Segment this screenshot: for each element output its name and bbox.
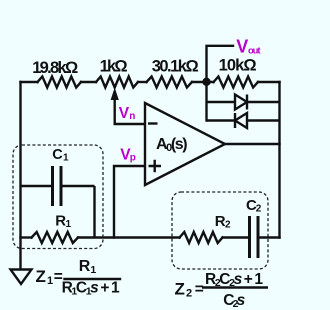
capacitor C1 plates [53,166,62,206]
node label Vp [120,146,136,163]
svg-text:2: 2 [256,204,262,215]
wire between 30.1k resistor and node Vout [192,81,214,83]
svg-text:10kΩ: 10kΩ [219,57,257,75]
wire potentiometer wiper shaft [113,100,115,124]
svg-text:1: 1 [66,219,72,230]
svg-text:n: n [129,111,135,122]
svg-text:19.8kΩ: 19.8kΩ [32,59,78,77]
svg-text:C2s: C2s [223,292,245,310]
impedance block Z2 dashed box [172,192,268,269]
op-amp non-inverting input plus sign [149,160,162,173]
reference label R1 [55,213,71,231]
resistor 19.8kOhm [38,77,82,88]
diode D2 (bottom, anode right) [207,113,280,128]
wire right rail vertical (op-amp output net) [278,82,280,238]
resistor R2 [180,232,223,243]
svg-text:1: 1 [47,275,53,287]
wire R2 right end to C2 left plate [223,236,250,238]
svg-text:R2C2s + 1: R2C2s + 1 [205,271,263,289]
wire bottom rail: left rail to R1 [21,236,32,238]
ground symbol [11,270,32,285]
wire bottom rail: R1 right end to R2 left end (node Vp net) [78,236,180,238]
impedance block Z1 dashed box [13,145,103,249]
node label Vn [119,105,136,122]
svg-text:C: C [52,147,63,163]
wire between 1k potentiometer and 30.1k resistor [138,81,147,83]
svg-text:R1C1s + 1: R1C1s + 1 [62,280,120,298]
wire node Vn: wiper to op-amp inverting input [115,123,145,125]
capacitor C2 plates [250,216,259,258]
svg-text:=: = [195,281,204,298]
potentiometer 1kOhm body [96,77,138,88]
node Vout junction dot [202,78,210,86]
reference label C2 [246,197,262,215]
resistor R1 [32,232,79,243]
svg-text:2: 2 [225,220,231,231]
op-amp A0(s) triangle body [145,103,225,185]
wire between 19.8k resistor and 1k potentiometer [81,81,96,83]
svg-text:p: p [130,153,136,164]
wire C2 right plate to right rail [259,236,280,238]
wire left rail vertical (ground net) [19,82,21,269]
svg-text:1kΩ: 1kΩ [100,58,128,76]
reference label C1 [52,147,69,164]
resistor 30.1kOhm [147,77,193,88]
svg-text:Z: Z [175,280,185,299]
wire op-amp output to right rail [225,143,280,145]
wire 10k resistor right end to right rail corner [258,81,280,83]
wire node Vp: op-amp non-inverting input down to bottom rail [114,166,145,238]
wire left rail to C1 left plate [21,185,52,187]
op-amp inverting input minus sign [148,122,158,124]
potentiometer wiper arrowhead [111,88,119,101]
svg-text:1: 1 [63,153,69,164]
equation Z1 = R1/(R1C1s+1) [36,258,122,298]
diode D1 (top, anode left) [207,95,280,110]
node label Vout [236,37,261,57]
wire Vout stub from junction up and right to label [207,46,234,82]
svg-text:A0(s): A0(s) [156,136,188,154]
svg-text:V: V [119,105,130,122]
svg-text:out: out [248,46,261,57]
svg-text:2: 2 [186,288,192,300]
equation Z2 = (R2C2s+1)/(C2s) [175,271,269,310]
wire top rail: left corner to 19.8k resistor [21,81,38,83]
resistor 10kOhm [214,77,259,88]
wire diode branch left vertical from node Vout [205,82,207,121]
wire C1 right plate across and down to bottom rail [63,186,95,238]
reference label R2 [215,213,231,231]
svg-text:30.1kΩ: 30.1kΩ [152,58,199,76]
svg-text:V: V [236,37,248,57]
svg-text:Z: Z [36,267,46,286]
